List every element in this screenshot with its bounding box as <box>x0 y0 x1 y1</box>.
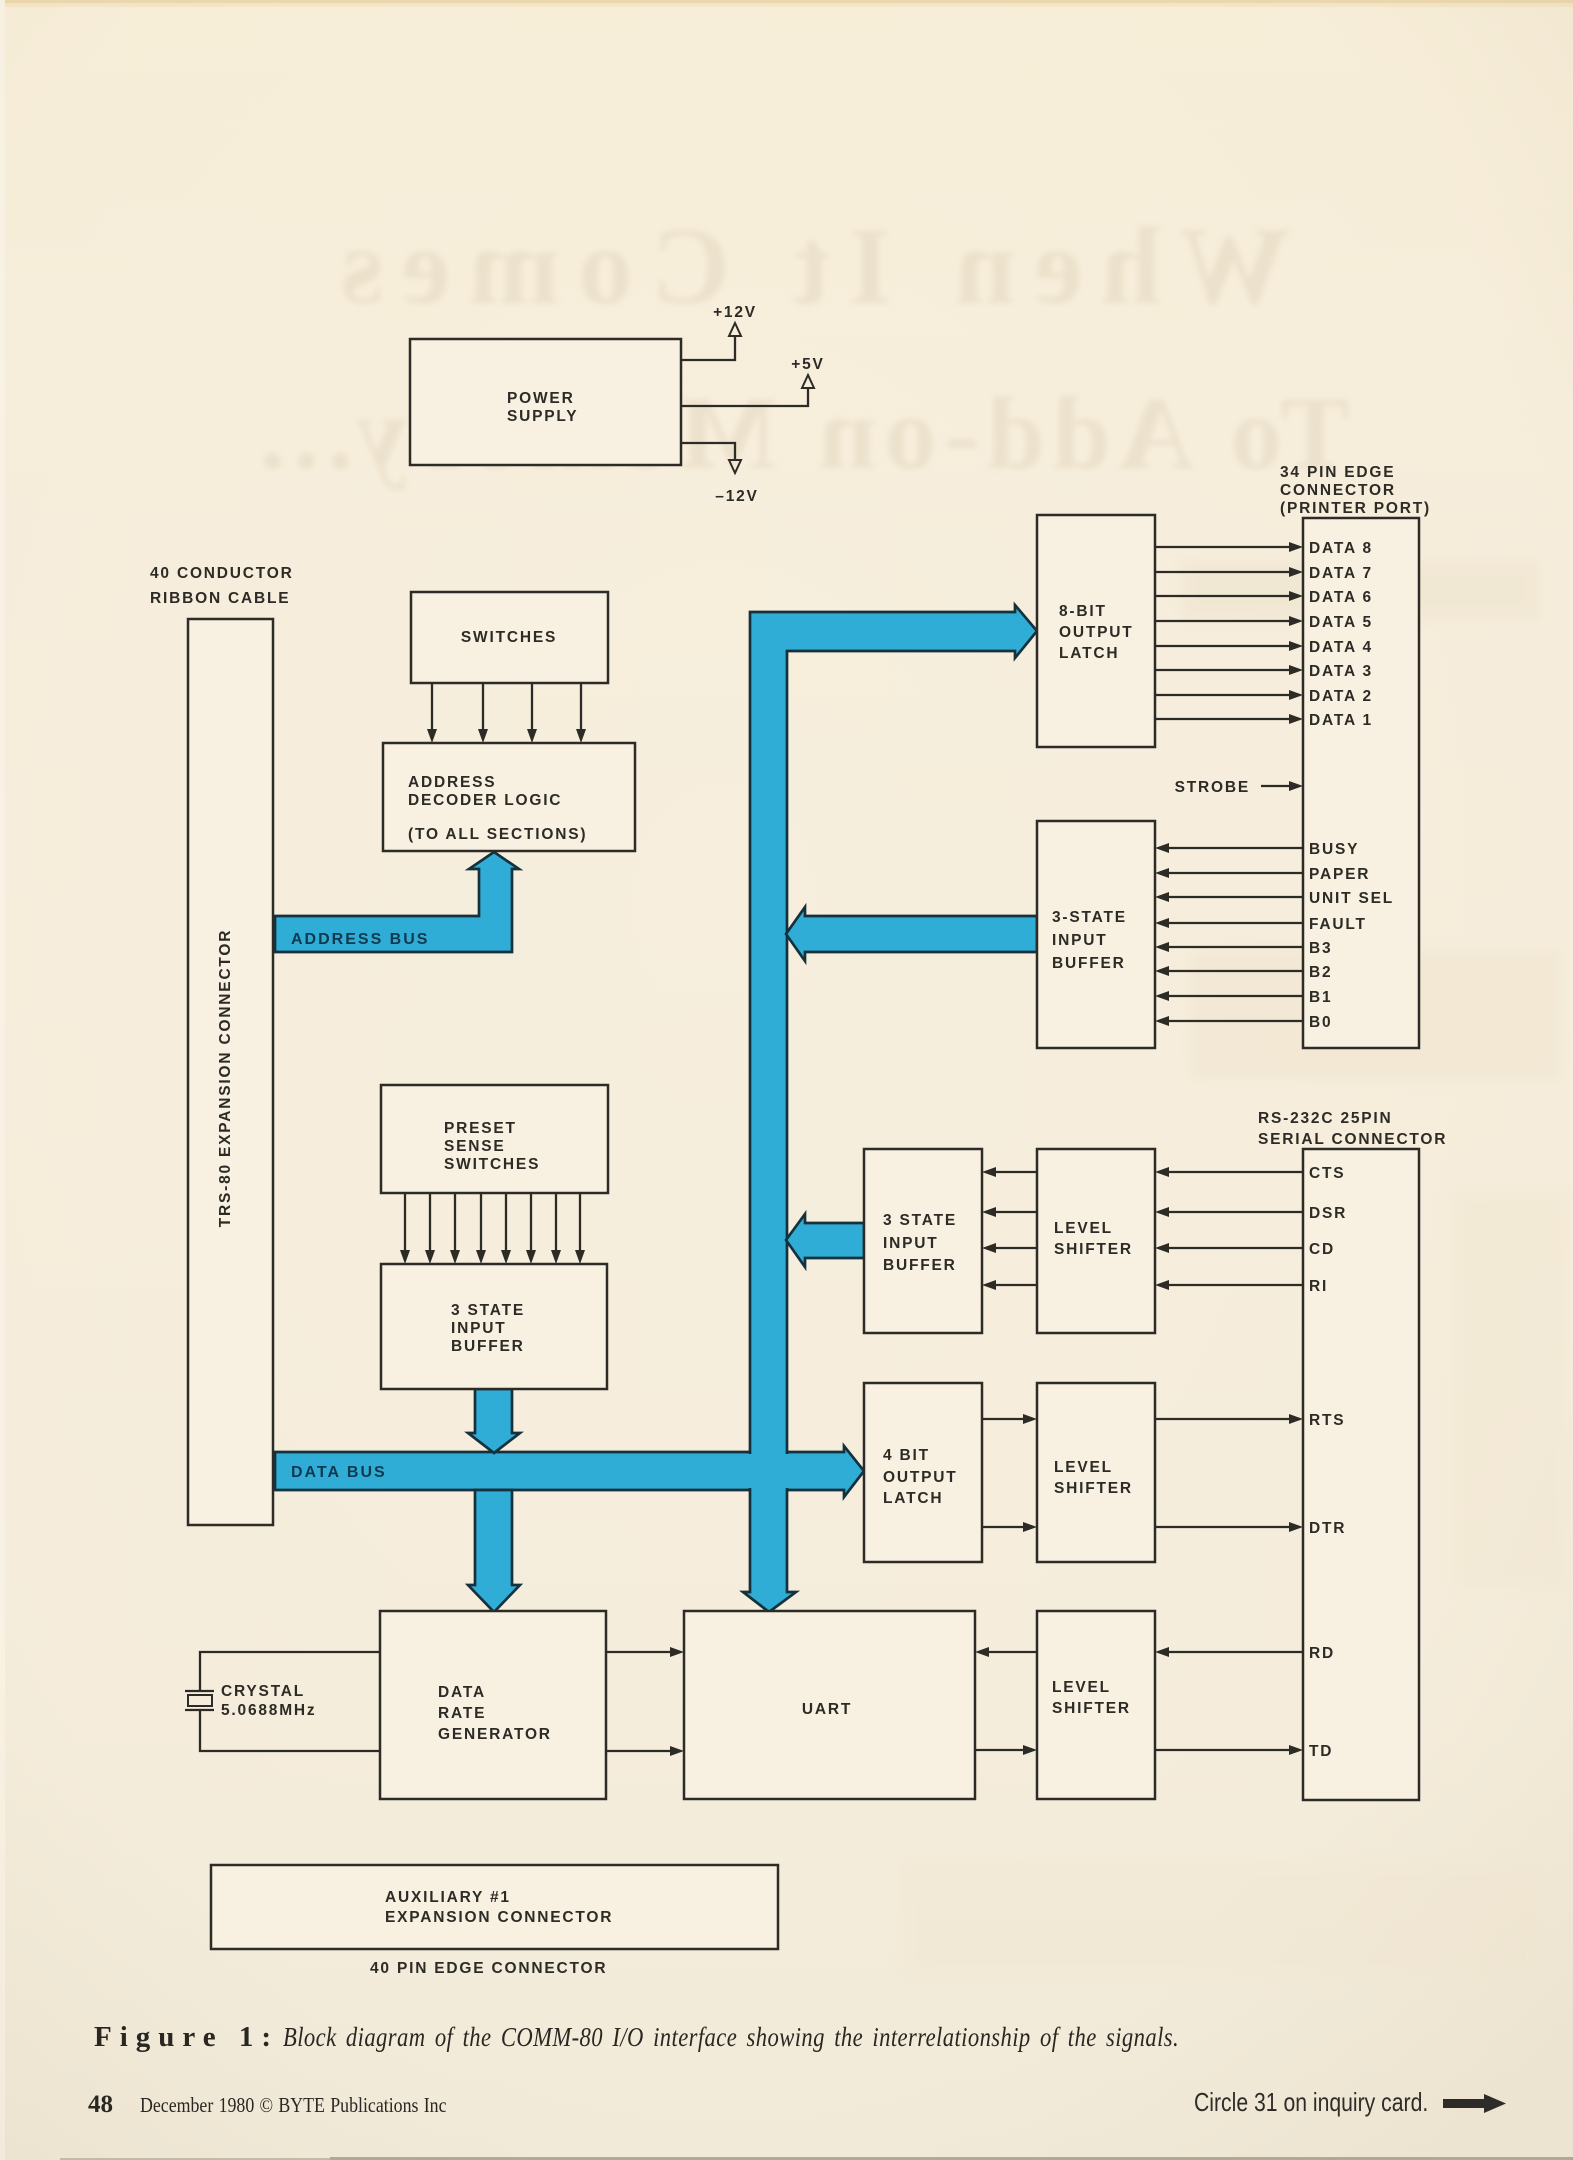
ADDRESS BUS (cyan) from TRS-80 connector to address decoder <box>275 852 519 952</box>
svg-text:TRS-80 EXPANSION CONNECTOR: TRS-80 EXPANSION CONNECTOR <box>217 929 234 1228</box>
serial input wires level shifter to 3 state buffer <box>982 1167 1037 1290</box>
level shifter box (inputs) <box>1037 1149 1155 1333</box>
svg-text:GENERATOR: GENERATOR <box>438 1726 552 1743</box>
svg-text:PRESET: PRESET <box>444 1120 517 1137</box>
address decoder logic box <box>383 743 635 851</box>
svg-text:CONNECTOR: CONNECTOR <box>1280 482 1396 499</box>
svg-text:ADDRESS BUS: ADDRESS BUS <box>291 931 429 948</box>
4 wires switches to address decoder <box>427 683 586 743</box>
data bus branch arrow from 3 state input buffer down into data bus <box>468 1389 520 1453</box>
svg-text:CD: CD <box>1309 1241 1335 1258</box>
footer left: page number and publication <box>88 2091 447 2118</box>
svg-text:DECODER LOGIC: DECODER LOGIC <box>408 792 562 809</box>
svg-text:RTS: RTS <box>1309 1412 1345 1429</box>
svg-text:Circle 31 on inquiry card.: Circle 31 on inquiry card. <box>1194 2089 1428 2118</box>
svg-text:Figure 1:: Figure 1: <box>94 2021 279 2053</box>
34 pin edge connector label <box>1280 464 1431 517</box>
svg-text:+12V: +12V <box>713 304 757 321</box>
strobe wire and label <box>1175 779 1303 796</box>
switches box <box>411 592 608 683</box>
svg-text:OUTPUT: OUTPUT <box>1059 624 1134 641</box>
power supply box U-PS <box>410 339 681 465</box>
svg-text:DATA 1: DATA 1 <box>1309 712 1373 729</box>
serial input wires connector to level shifter <box>1155 1167 1303 1290</box>
svg-text:B2: B2 <box>1309 964 1332 981</box>
svg-text:December 1980 © BYTE Publicati: December 1980 © BYTE Publications Inc <box>140 2095 447 2118</box>
svg-text:EXPANSION CONNECTOR: EXPANSION CONNECTOR <box>385 1909 613 1926</box>
svg-text:3 STATE: 3 STATE <box>451 1302 525 1319</box>
svg-text:OUTPUT: OUTPUT <box>883 1469 958 1486</box>
svg-text:LEVEL: LEVEL <box>1054 1459 1113 1476</box>
UART box <box>684 1611 975 1799</box>
3 state input buffer box (data bus side) <box>381 1264 607 1389</box>
wire +5V <box>681 356 825 406</box>
wire TD UART to level shifter to connector <box>975 1743 1333 1760</box>
svg-text:34 PIN EDGE: 34 PIN EDGE <box>1280 464 1395 481</box>
auxiliary expansion connector box <box>211 1865 778 1949</box>
svg-text:DSR: DSR <box>1309 1205 1347 1222</box>
wire -12V <box>681 443 759 505</box>
svg-text:SWITCHES: SWITCHES <box>461 629 557 646</box>
8-bit output latch box <box>1037 515 1155 747</box>
svg-text:DTR: DTR <box>1309 1520 1346 1537</box>
svg-text:LATCH: LATCH <box>1059 645 1119 662</box>
crystal Y1 5.0688MHz <box>185 1652 380 1751</box>
RS-232C serial connector label <box>1258 1110 1447 1148</box>
wire RD connector to level shifter to UART <box>975 1645 1335 1662</box>
footer right arrow <box>1443 2094 1506 2113</box>
svg-text:40 CONDUCTOR: 40 CONDUCTOR <box>150 565 294 582</box>
svg-text:POWER: POWER <box>507 390 575 407</box>
svg-text:CTS: CTS <box>1309 1165 1345 1182</box>
svg-text:DATA: DATA <box>438 1684 486 1701</box>
svg-text:RIBBON CABLE: RIBBON CABLE <box>150 590 290 607</box>
main vertical bus (cyan) with arm into 8-bit output latch and arrow into UART <box>743 605 1037 1612</box>
wire +12V <box>681 304 757 360</box>
arm (cyan) from printer 3-state input buffer into vertical bus <box>786 907 1037 961</box>
data pin wires latch to printer connector <box>1155 542 1303 724</box>
svg-text:BUFFER: BUFFER <box>451 1338 525 1355</box>
data bus branch arrow down into data rate generator <box>468 1490 520 1612</box>
level shifter box (serial data) <box>1037 1611 1155 1799</box>
ghost bleed-through of reverse page (decorative, mirrored) <box>251 205 1350 491</box>
svg-text:INPUT: INPUT <box>883 1235 939 1252</box>
wires 4 bit latch to level shifter <box>982 1414 1037 1532</box>
svg-text:40 PIN EDGE CONNECTOR: 40 PIN EDGE CONNECTOR <box>370 1960 607 1977</box>
svg-text:BUSY: BUSY <box>1309 841 1359 858</box>
svg-text:UART: UART <box>802 1701 852 1718</box>
svg-text:RI: RI <box>1309 1278 1328 1295</box>
svg-text:STROBE: STROBE <box>1175 779 1250 796</box>
svg-text:Block diagram of the COMM-80 I: Block diagram of the COMM-80 I/O interfa… <box>283 2023 1179 2052</box>
svg-text:SHIFTER: SHIFTER <box>1052 1700 1131 1717</box>
wires level shifter to connector RTS DTR <box>1155 1412 1346 1537</box>
svg-text:SERIAL CONNECTOR: SERIAL CONNECTOR <box>1258 1131 1447 1148</box>
svg-text:LATCH: LATCH <box>883 1490 943 1507</box>
svg-text:PAPER: PAPER <box>1309 866 1370 883</box>
8 wires preset switches to 3 state input buffer <box>400 1193 585 1264</box>
level shifter box (outputs) <box>1037 1383 1155 1562</box>
junction patch where vertical bus crosses data bus <box>746 1454 790 1488</box>
svg-text:DATA 8: DATA 8 <box>1309 540 1373 557</box>
3 state input buffer box (RS-232 side) <box>864 1149 982 1333</box>
svg-text:DATA BUS: DATA BUS <box>291 1464 387 1481</box>
svg-text:(PRINTER PORT): (PRINTER PORT) <box>1280 500 1431 517</box>
svg-text:3-STATE: 3-STATE <box>1052 909 1127 926</box>
svg-text:TD: TD <box>1309 1743 1333 1760</box>
label 40 conductor ribbon cable <box>150 565 294 607</box>
svg-text:SHIFTER: SHIFTER <box>1054 1480 1133 1497</box>
svg-text:DATA 3: DATA 3 <box>1309 663 1373 680</box>
svg-text:FAULT: FAULT <box>1309 916 1367 933</box>
svg-text:5.0688MHz: 5.0688MHz <box>221 1702 316 1719</box>
svg-text:AUXILIARY #1: AUXILIARY #1 <box>385 1889 511 1906</box>
data rate generator box <box>380 1611 606 1799</box>
serial input labels <box>1309 1165 1347 1295</box>
svg-text:DATA 4: DATA 4 <box>1309 639 1373 656</box>
svg-text:SENSE: SENSE <box>444 1138 506 1155</box>
svg-text:DATA 7: DATA 7 <box>1309 565 1373 582</box>
preset sense switches box <box>381 1085 608 1193</box>
svg-text:DATA 2: DATA 2 <box>1309 688 1373 705</box>
svg-text:When It Comes: When It Comes <box>323 205 1290 327</box>
svg-text:BUFFER: BUFFER <box>883 1257 957 1274</box>
data pin labels <box>1309 540 1373 729</box>
RS-232C 25 pin serial connector box <box>1303 1149 1419 1800</box>
svg-text:48: 48 <box>88 2091 113 2118</box>
svg-text:SUPPLY: SUPPLY <box>507 408 578 425</box>
svg-text:B1: B1 <box>1309 989 1332 1006</box>
TRS-80 expansion connector box <box>188 619 273 1525</box>
svg-text:+5V: +5V <box>791 356 824 373</box>
4 bit output latch box <box>864 1383 982 1562</box>
printer status labels <box>1309 841 1394 1031</box>
DATA BUS (cyan) horizontal band with arrow into 4 bit output latch <box>275 1446 864 1497</box>
svg-text:DATA 6: DATA 6 <box>1309 589 1373 606</box>
figure caption <box>94 2021 1179 2053</box>
svg-text:ADDRESS: ADDRESS <box>408 774 496 791</box>
svg-text:–12V: –12V <box>715 488 758 505</box>
svg-text:INPUT: INPUT <box>451 1320 507 1337</box>
svg-text:DATA 5: DATA 5 <box>1309 614 1373 631</box>
wires data rate generator to UART <box>606 1647 684 1756</box>
3-state input buffer box (printer side) <box>1037 821 1155 1048</box>
svg-text:RD: RD <box>1309 1645 1335 1662</box>
arm (cyan) from RS-232 3 state input buffer into vertical bus <box>786 1214 864 1267</box>
34 pin edge connector box <box>1303 518 1419 1048</box>
svg-text:B3: B3 <box>1309 940 1332 957</box>
svg-text:BUFFER: BUFFER <box>1052 955 1126 972</box>
svg-text:8-BIT: 8-BIT <box>1059 603 1107 620</box>
svg-text:SWITCHES: SWITCHES <box>444 1156 540 1173</box>
svg-text:RATE: RATE <box>438 1705 486 1722</box>
svg-text:LEVEL: LEVEL <box>1052 1679 1111 1696</box>
svg-text:3 STATE: 3 STATE <box>883 1212 957 1229</box>
svg-text:4 BIT: 4 BIT <box>883 1447 930 1464</box>
svg-text:SHIFTER: SHIFTER <box>1054 1241 1133 1258</box>
svg-text:B0: B0 <box>1309 1014 1332 1031</box>
svg-text:INPUT: INPUT <box>1052 932 1108 949</box>
svg-text:LEVEL: LEVEL <box>1054 1220 1113 1237</box>
printer status wires connector to buffer <box>1155 843 1303 1026</box>
svg-text:(TO ALL SECTIONS): (TO ALL SECTIONS) <box>408 826 587 843</box>
svg-text:UNIT SEL: UNIT SEL <box>1309 890 1394 907</box>
svg-text:CRYSTAL: CRYSTAL <box>221 1683 305 1700</box>
svg-text:RS-232C 25PIN: RS-232C 25PIN <box>1258 1110 1393 1127</box>
